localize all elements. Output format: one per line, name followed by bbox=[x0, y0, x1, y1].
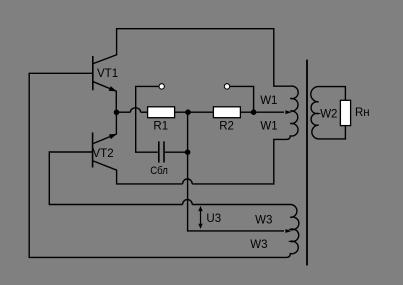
svg-text:R1: R1 bbox=[153, 121, 168, 133]
svg-text:W3: W3 bbox=[255, 214, 272, 226]
svg-text:W3: W3 bbox=[250, 239, 267, 251]
svg-text:Rн: Rн bbox=[355, 107, 370, 119]
svg-text:U3: U3 bbox=[206, 213, 221, 225]
svg-text:R2: R2 bbox=[219, 121, 234, 133]
svg-text:W1: W1 bbox=[260, 95, 277, 107]
svg-text:W1: W1 bbox=[260, 121, 277, 133]
svg-text:Сбл: Сбл bbox=[150, 164, 168, 177]
svg-text:VT1: VT1 bbox=[97, 68, 118, 80]
svg-text:VT2: VT2 bbox=[93, 148, 114, 160]
svg-text:W2: W2 bbox=[320, 108, 337, 120]
